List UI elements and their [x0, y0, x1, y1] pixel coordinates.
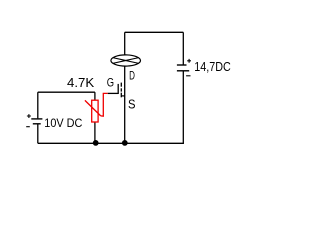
lamp L1 cross line 1 — [113, 58, 139, 64]
battery V2 14,7DC top plate — [177, 64, 187, 66]
junction node source-bottom — [122, 140, 128, 146]
transistor Q1 channel dash source — [120, 93, 122, 98]
battery V2 minus sign — [186, 75, 190, 77]
resistor R1 4.7K body (red, selected) — [92, 100, 98, 122]
transistor Q1 channel dash drain — [120, 83, 122, 87]
battery V1 10V DC top plate — [31, 118, 42, 120]
battery V1 10V DC bottom plate — [33, 123, 41, 125]
svg-text:S: S — [128, 98, 136, 112]
wire lamp top lead — [124, 32, 126, 55]
wire drain-source vertical — [124, 66, 126, 143]
wire resistor bottom lead — [94, 122, 96, 143]
battery V2 plus sign — [187, 59, 191, 63]
lamp L1 ellipse — [111, 55, 141, 66]
wire right rail lower — [182, 71, 184, 143]
junction node resistor-bottom — [93, 140, 99, 146]
battery V2 14,7DC bottom plate — [177, 70, 189, 72]
wire left rail lower — [37, 124, 39, 143]
wire resistor top lead — [94, 92, 96, 100]
resistor R1 wiper diagonal — [85, 100, 101, 116]
battery V1 plus sign — [27, 114, 31, 118]
wire gate lead black — [108, 92, 119, 94]
wire top left rail — [38, 91, 95, 93]
svg-text:10V DC: 10V DC — [44, 116, 82, 130]
transistor Q1 gate bar — [117, 84, 119, 94]
wire left rail upper — [37, 92, 39, 118]
wire bottom rail — [38, 142, 184, 144]
wire wiper to gate (red) — [101, 93, 108, 116]
svg-text:4.7K: 4.7K — [67, 75, 95, 90]
svg-text:D: D — [129, 71, 135, 83]
wire top rail — [125, 31, 184, 33]
svg-text:14,7DC: 14,7DC — [194, 59, 231, 74]
wire right rail upper — [182, 32, 184, 64]
battery V1 minus sign — [26, 126, 30, 128]
svg-text:G: G — [107, 76, 114, 90]
transistor Q1 channel dash body — [120, 88, 122, 91]
transistor Q1 source tick — [121, 95, 124, 97]
lamp L1 cross line 2 — [113, 58, 139, 64]
